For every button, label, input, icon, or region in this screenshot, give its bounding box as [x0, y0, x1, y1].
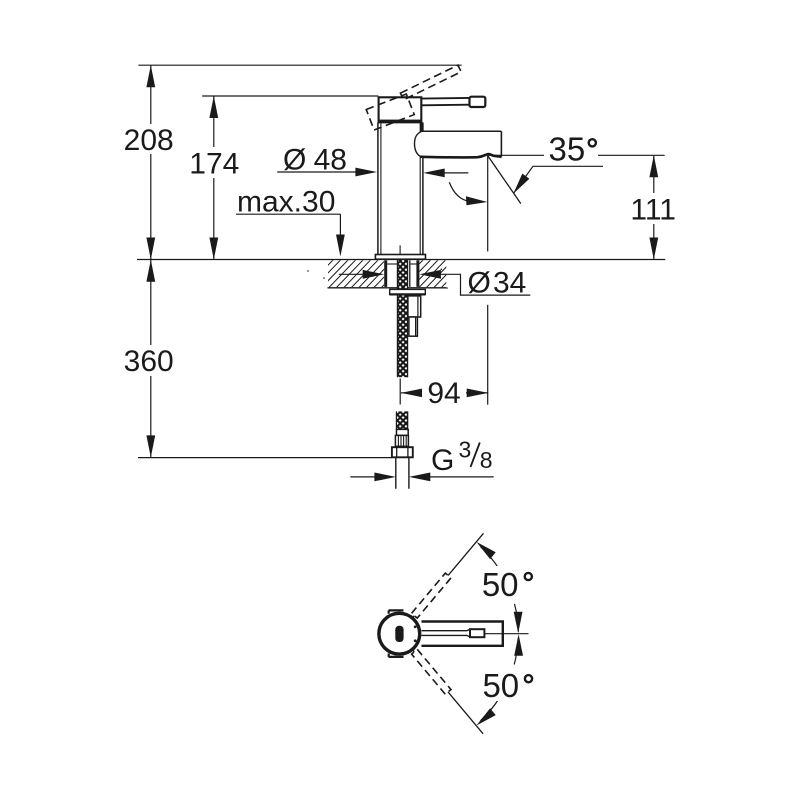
second reference line (closed lever height) — [202, 95, 378, 97]
deck bottom line — [328, 287, 447, 289]
faucet body left inner edge — [380, 123, 382, 254]
spout top edge — [421, 130, 501, 132]
svg-text:111: 111 — [630, 194, 676, 227]
shank right inner washer line — [411, 263, 417, 265]
lower 50 arc tail at ray — [481, 699, 500, 721]
dia48 arrow left — [355, 168, 377, 177]
svg-text:35: 35 — [549, 131, 586, 168]
upper 50 arc tail at centerline — [515, 604, 519, 632]
arrow 94 left — [401, 389, 423, 398]
arrow 94 right — [467, 389, 489, 398]
supply pipe — [396, 457, 409, 489]
upper 50 arc tail at ray — [481, 547, 500, 569]
svg-text:Ø: Ø — [468, 267, 491, 300]
faucet body right outer edge — [422, 123, 424, 255]
top tab on circle — [389, 610, 404, 613]
arrow 111 bottom — [649, 238, 658, 260]
dim line 208 — [150, 65, 152, 259]
arrow 174 top — [209, 96, 218, 118]
top view spout rectangle — [422, 622, 503, 646]
body right edge above spout — [420, 122, 423, 131]
arrow 111 top — [649, 155, 658, 177]
keyhole blob — [395, 626, 403, 642]
svg-text:Ø: Ø — [283, 144, 306, 177]
base flange — [375, 255, 425, 260]
arrow 360 bottom — [146, 435, 155, 457]
svg-text:8: 8 — [480, 447, 493, 473]
faucet body left outer edge — [377, 123, 379, 255]
dim line 174 — [213, 96, 215, 260]
bottom tab on circle — [389, 654, 404, 657]
dim line 94 — [401, 392, 488, 394]
dashed lever (open position) — [400, 65, 461, 100]
deck texture dots — [307, 269, 448, 289]
max30 underline — [236, 213, 340, 215]
cap bottom thick band — [379, 120, 422, 123]
svg-text:G: G — [431, 444, 454, 477]
dashed cap (open position) — [366, 94, 414, 130]
upper dashed handle — [412, 573, 451, 618]
dia34 arrow left — [363, 270, 385, 279]
mounting washer — [390, 289, 426, 294]
max30 drop line — [339, 214, 341, 237]
top reference line (raised lever height) — [138, 64, 461, 66]
svg-text:94: 94 — [427, 377, 460, 410]
flow direction arrowhead — [466, 196, 488, 205]
hose centerline extension — [399, 379, 401, 405]
lower 50 arc tail at centerline — [514, 638, 518, 665]
arrow 360 top — [146, 260, 155, 282]
hose centerline inside body — [399, 245, 401, 259]
hose ferrule — [397, 429, 409, 435]
35deg outlet diagonal — [488, 156, 521, 204]
top view lever shaft — [422, 629, 471, 637]
G38 dim line — [350, 476, 493, 478]
dia34 leader with shelf — [440, 274, 531, 295]
lever bar top edge — [421, 97, 469, 100]
screw dots — [414, 625, 417, 628]
lever bar bottom edge — [421, 104, 469, 107]
arrow 208 top — [146, 65, 155, 87]
svg-text:208: 208 — [124, 124, 174, 157]
35deg leader — [513, 166, 603, 193]
lower 50 arrow at centerline — [514, 634, 523, 656]
deck top line — [137, 259, 665, 261]
dia48 leader line left — [277, 171, 357, 173]
faucet cap outline — [379, 97, 422, 122]
G38 arrow right — [409, 473, 431, 482]
shank left wall — [384, 260, 387, 287]
hose fitting upper — [408, 296, 421, 317]
braided hose lower section — [396, 411, 407, 430]
outlet vertical line lower — [487, 305, 489, 405]
shank right inner line — [409, 260, 411, 287]
svg-text:174: 174 — [189, 148, 239, 181]
svg-text:max.30: max.30 — [237, 186, 335, 219]
text white boxes — [120, 124, 680, 701]
flow direction arc — [449, 182, 470, 201]
svg-text:360: 360 — [124, 345, 174, 378]
dim line 111 — [653, 155, 655, 259]
svg-text:3: 3 — [459, 437, 472, 463]
bottom reference line (hose end) — [138, 457, 392, 459]
top view centerline — [485, 633, 529, 635]
arrow 208 bottom — [146, 238, 155, 260]
spout height reference line — [488, 154, 665, 156]
upper 50 ray — [412, 533, 484, 619]
lever knob — [470, 97, 486, 107]
G38 arrow left — [374, 473, 396, 482]
svg-text:34: 34 — [493, 267, 526, 300]
svg-text:50: 50 — [482, 566, 519, 603]
dim line 360 — [150, 260, 152, 458]
dia34 tail left — [339, 273, 366, 275]
faucet body right inner edge — [419, 123, 421, 254]
dia34 arrow right — [419, 270, 441, 279]
upper 50 arrow at centerline — [514, 612, 523, 634]
lower 50 arrow at ray — [476, 708, 495, 725]
lower 50 ray — [412, 648, 484, 734]
max30 arrow — [336, 235, 345, 257]
hose fitting lower — [409, 317, 418, 336]
lower dashed handle — [412, 649, 451, 694]
spout fill — [415, 131, 502, 157]
spout right edge — [500, 131, 502, 156]
svg-text:50: 50 — [482, 667, 519, 704]
outlet vertical line upper — [487, 156, 489, 252]
top view lever head — [470, 629, 484, 637]
braided hose upper section — [397, 260, 407, 377]
35deg leader arrow — [513, 174, 529, 194]
svg-text:48: 48 — [314, 144, 347, 177]
shank right wall — [416, 260, 419, 287]
arrow 174 bottom — [209, 238, 218, 260]
shank left inner washer line — [387, 263, 397, 265]
deck hatching — [305, 259, 469, 289]
top view body circle — [379, 613, 420, 654]
ribbed connector — [395, 435, 408, 446]
spout bottom edge with aerator notch — [420, 154, 501, 157]
dia48 arrow right — [423, 169, 445, 178]
spout left intersection arc — [415, 132, 422, 157]
G3/8 nut — [392, 447, 413, 457]
dia48 tail right — [444, 172, 469, 174]
upper 50 arrow at ray — [476, 542, 495, 559]
